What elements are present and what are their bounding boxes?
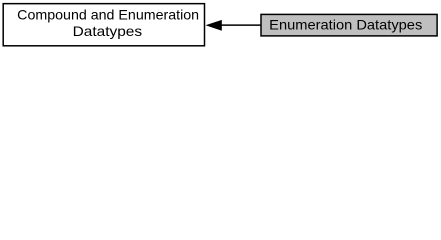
svg-text:Compound and Enumeration: Compound and Enumeration xyxy=(17,8,199,23)
edge wire: shaft from grey node to arrowhead xyxy=(221,24,262,26)
node box: Enumeration Datatypes (current node, grey fill) xyxy=(261,14,437,36)
svg-text:Enumeration Datatypes: Enumeration Datatypes xyxy=(269,17,422,32)
edge arrowhead pointing at left node xyxy=(206,20,222,31)
node box: Compound and Enumeration Datatypes xyxy=(3,4,204,46)
svg-text:Datatypes: Datatypes xyxy=(73,24,143,39)
background xyxy=(0,0,441,51)
